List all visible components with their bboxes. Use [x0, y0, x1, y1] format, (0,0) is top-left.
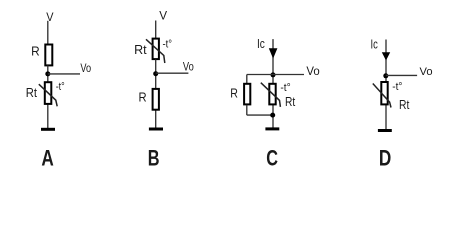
svg-text:-t°: -t°: [163, 39, 173, 51]
svg-text:Ic: Ic: [257, 38, 265, 51]
svg-text:A: A: [41, 146, 53, 171]
svg-text:Vo: Vo: [420, 66, 433, 78]
svg-text:Rt: Rt: [134, 43, 147, 57]
svg-text:Rt: Rt: [26, 86, 38, 101]
svg-text:V: V: [159, 8, 167, 22]
svg-text:D: D: [379, 147, 391, 172]
svg-text:Vo: Vo: [306, 66, 319, 78]
svg-text:Ic: Ic: [371, 38, 379, 52]
svg-text:B: B: [148, 146, 160, 171]
svg-text:-t°: -t°: [56, 81, 65, 93]
svg-text:R: R: [139, 90, 148, 105]
svg-text:-t°: -t°: [392, 81, 402, 93]
svg-text:C: C: [266, 146, 278, 171]
svg-text:Rt: Rt: [399, 99, 410, 112]
svg-text:Vo: Vo: [80, 63, 91, 75]
svg-text:R: R: [230, 87, 238, 101]
svg-text:R: R: [31, 44, 40, 58]
svg-text:-t°: -t°: [280, 82, 290, 94]
svg-text:Rt: Rt: [285, 96, 296, 109]
svg-text:Vo: Vo: [183, 62, 194, 74]
